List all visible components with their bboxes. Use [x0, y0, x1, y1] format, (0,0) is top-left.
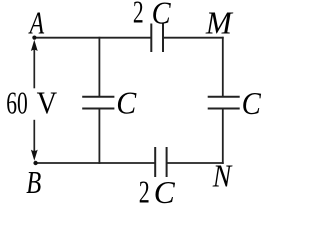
capacitor 2C bottom plates — [154, 147, 156, 177]
wire bottom-right: capacitor 2C to corner N — [167, 162, 224, 164]
node B dot — [33, 161, 37, 165]
svg-text:M: M — [205, 5, 234, 40]
svg-text:B: B — [26, 165, 41, 200]
wire top-left: A to capacitor 2C — [34, 37, 151, 39]
wire top-right: capacitor 2C to corner M — [163, 37, 224, 39]
svg-text:A: A — [28, 6, 45, 41]
svg-text:C: C — [116, 85, 137, 120]
svg-text:C: C — [242, 86, 262, 121]
capacitor 2C top plates — [150, 24, 152, 53]
svg-text:60: 60 — [6, 85, 28, 120]
svg-text:2: 2 — [133, 0, 144, 30]
node A dot — [32, 36, 36, 40]
svg-text:C: C — [152, 0, 172, 30]
svg-text:V: V — [37, 85, 58, 120]
wire right branch upper — [222, 37, 224, 97]
wire right branch lower — [222, 109, 224, 164]
voltage arrow shaft upper segment — [33, 44, 35, 88]
wire middle branch lower — [98, 109, 100, 164]
voltage arrow shaft lower segment — [33, 120, 35, 156]
svg-text:2: 2 — [139, 174, 150, 204]
svg-text:N: N — [212, 158, 233, 193]
capacitor C right plates — [208, 96, 240, 98]
svg-text:C: C — [154, 175, 176, 204]
arrowhead down (at B) — [31, 150, 38, 161]
arrowhead up (at A) — [31, 40, 38, 51]
wire middle branch upper — [98, 37, 100, 97]
wire bottom-left: B to capacitor 2C — [35, 162, 155, 164]
capacitor C middle plates — [82, 96, 114, 98]
